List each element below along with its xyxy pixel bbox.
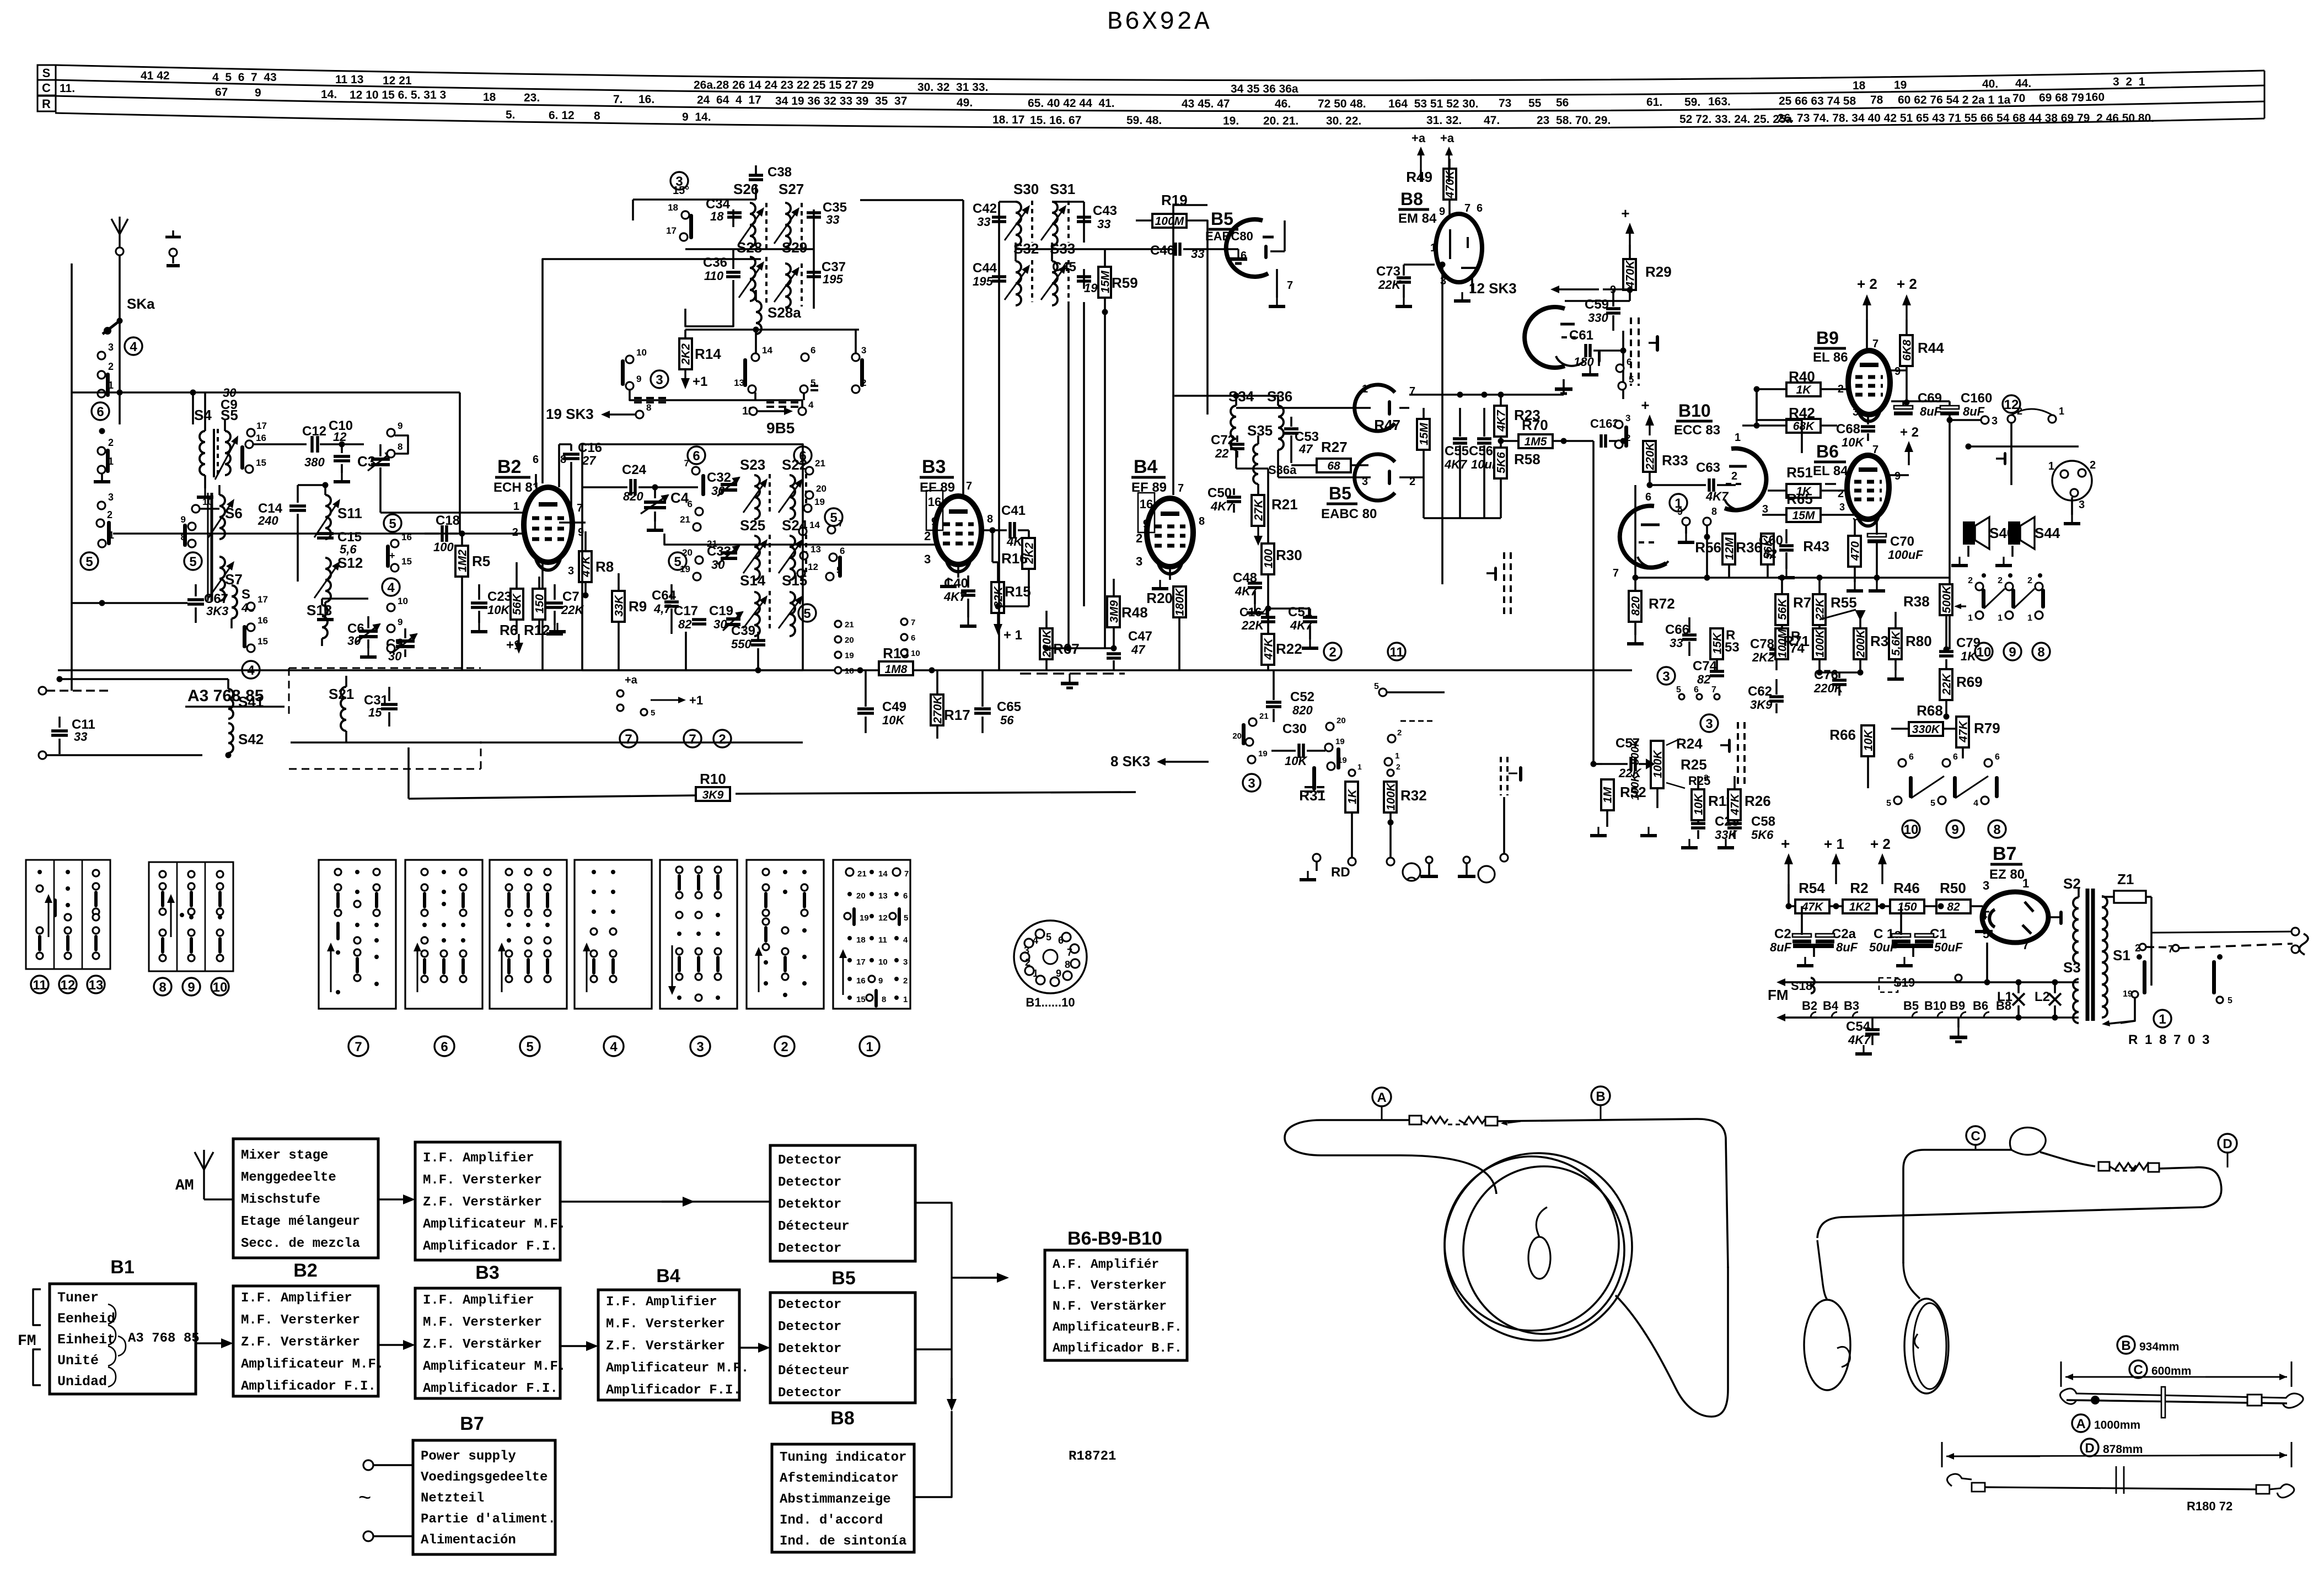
resistor R53 [1710,617,1740,672]
wire S28a to R14 [685,330,859,338]
wire r23 top [1500,379,1501,395]
svg-text:9: 9 [1439,206,1445,218]
svg-text:15: 15 [401,556,412,567]
svg-text:10: 10 [636,347,647,358]
svg-text:1: 1 [2159,1012,2166,1027]
label S28 [737,239,762,256]
svg-text:47K: 47K [1729,793,1742,815]
capacitor C30 [1271,722,1325,768]
svg-text:R180 72: R180 72 [2187,1499,2232,1513]
svg-text:10K: 10K [1842,435,1865,449]
contact 17a [666,225,688,241]
block B8 tuning [772,1444,914,1552]
tube B2 ECH81 [524,487,572,570]
capacitor C55 [1444,408,1469,518]
capacitor C33 [707,544,739,572]
label S22 [782,456,807,473]
svg-text:4: 4 [1981,908,1988,922]
svg-text:Detector: Detector [778,1153,841,1168]
capacitor C62 [1748,679,1784,713]
pin 6 B2 [533,454,539,466]
resistor R58 [1494,437,1541,518]
resistor R65 [1762,491,1845,522]
svg-text:10: 10 [911,649,920,658]
label S36a [1268,463,1297,477]
wire det top [1409,379,1572,408]
circled 4 node [125,337,142,355]
svg-text:100: 100 [433,540,454,554]
wire right bus down [1592,441,1595,764]
svg-text:3: 3 [861,345,866,356]
svg-text:16: 16 [256,433,266,443]
svg-text:5: 5 [189,555,196,569]
circled 3 under box [690,1036,710,1056]
capacitor C63 [1650,460,1737,503]
circled 11 12 13 [31,976,105,993]
svg-text:22K: 22K [561,603,584,617]
svg-text:Z.F. Verstärker: Z.F. Verstärker [423,1337,542,1352]
block B7 power [413,1440,556,1554]
contact above R31 [1349,762,1362,776]
svg-text:R24: R24 [1676,735,1703,752]
circled 3 and 15deg [670,172,689,197]
arrow FM3 [560,1341,598,1351]
svg-text:18: 18 [856,935,866,945]
wire 12sk3 right [1603,289,1630,301]
coil S28 var [739,257,766,303]
coil S23 [743,474,770,519]
table row S numbers [141,69,2145,95]
svg-text:8: 8 [1065,959,1070,970]
12SK3 arrow [1469,280,1616,297]
svg-text:21: 21 [680,514,690,525]
contact 1c [98,530,114,547]
svg-text:6: 6 [1995,752,2000,762]
svg-text:9: 9 [1677,506,1683,517]
svg-text:EL 84: EL 84 [1813,464,1848,478]
heater bus top [1784,937,2079,993]
label B5 blk [831,1268,855,1289]
component location table frame [37,65,2264,128]
label SKa [127,295,155,312]
svg-text:+a: +a [1440,131,1454,145]
svg-text:S29: S29 [782,239,807,256]
svg-text:5,6K: 5,6K [1890,630,1903,655]
svg-text:+ 2: + 2 [1897,276,1917,292]
svg-text:M.F. Versterker: M.F. Versterker [423,1173,542,1188]
svg-text:7: 7 [684,458,689,469]
svg-text:7: 7 [1613,567,1619,579]
svg-text:68K: 68K [1793,420,1815,433]
label S27 [779,181,804,197]
tuner dashed box [289,668,481,769]
svg-text:2: 2 [108,437,114,448]
wire c39 bottom [685,670,686,671]
svg-text:5K6: 5K6 [1751,828,1774,842]
pin1 B5 [1362,383,1368,395]
tube B5 diode1 [1355,385,1409,431]
svg-text:10K: 10K [1693,793,1705,815]
svg-text:6: 6 [441,1040,448,1054]
svg-text:8: 8 [646,402,651,413]
wire r50 tube [1983,906,1984,907]
wire B4 grid [1031,243,1147,545]
resistor R20 180K [1146,567,1186,670]
svg-text:Détecteur: Détecteur [778,1364,850,1379]
transformer S1 [2102,896,2130,1018]
ground below SKa contacts [94,474,110,482]
svg-text:Voedingsgedeelte: Voedingsgedeelte [421,1470,548,1485]
label B6-B9-B10 [1067,1228,1162,1249]
svg-text:R27: R27 [1321,439,1348,455]
svg-text:7: 7 [1287,279,1293,292]
label S24 [782,517,808,534]
svg-text:21: 21 [815,458,825,469]
svg-text:56: 56 [1000,713,1014,727]
wire osc top link [860,199,963,201]
svg-text:160: 160 [2085,91,2105,104]
svg-text:3: 3 [108,492,114,503]
svg-text:20: 20 [682,547,693,558]
resistor R33 [1643,441,1688,488]
svg-text:4: 4 [808,400,814,410]
wire b10 to r40 [1704,575,1710,581]
label B5 upper [1205,209,1253,243]
tube B6 EL84 [1838,444,1901,526]
svg-text:20: 20 [816,483,826,494]
main bus wire [58,669,1632,671]
svg-text:C41: C41 [1001,503,1026,518]
capacitor C66 [1665,617,1697,656]
svg-text:2: 2 [1136,531,1142,545]
svg-text:AM: AM [175,1177,194,1194]
svg-text:1K: 1K [1346,788,1359,804]
wire ind [1622,331,1624,399]
svg-text:Amplificador B.F.: Amplificador B.F. [1053,1341,1182,1355]
wire B9 plate [1866,320,1868,353]
contact 9b [181,514,196,530]
svg-text:S23: S23 [740,456,765,473]
svg-text:9: 9 [255,87,261,99]
svg-text:4: 4 [610,1040,618,1054]
contact 19b [680,564,701,580]
svg-text:19: 19 [1335,737,1345,746]
svg-text:3 2 1: 3 2 1 [2113,76,2145,88]
svg-text:Detector: Detector [778,1320,841,1334]
plus1 arrow b3 [992,530,1029,643]
svg-text:14: 14 [762,345,772,356]
block B3 if [415,1288,566,1398]
svg-text:B6: B6 [1973,999,1988,1013]
vertical to bus b [1083,302,1085,606]
svg-text:R2: R2 [1850,880,1868,896]
svg-text:R44: R44 [1918,340,1944,356]
label S36 [1267,388,1292,405]
circled 3 mid [651,370,668,388]
b8 tap [1950,975,1967,1042]
svg-text:47K: 47K [1801,901,1824,913]
svg-text:A: A [1377,1090,1386,1105]
svg-text:82: 82 [678,617,692,631]
svg-text:S: S [241,587,250,602]
svg-text:S31: S31 [1050,181,1075,197]
din ground [2064,497,2080,524]
pin 3 B2 [568,565,574,577]
svg-text:20: 20 [1232,731,1242,741]
svg-text:200K: 200K [1855,629,1867,658]
wire b6 plate [1867,441,1869,455]
svg-text:17: 17 [666,225,677,236]
wire x350 down [185,392,193,424]
wire r59 down [1105,312,1123,648]
svg-text:934mm: 934mm [2139,1341,2179,1353]
osc wires [685,209,814,326]
label B5 lower [1321,483,1377,521]
circled 10 9 8 lower [1902,820,2006,838]
svg-text:B2: B2 [293,1260,317,1281]
svg-text:8: 8 [398,637,402,647]
dim circled A [2072,1414,2140,1432]
wire plus a arrows [1411,131,1454,182]
svg-text:R66: R66 [1829,726,1856,743]
speaker S40 [1963,517,2015,549]
label S18 [1791,978,1815,993]
svg-text:C54: C54 [1846,1019,1871,1034]
contact 10a [626,347,647,363]
svg-text:B6: B6 [1816,442,1839,461]
coil S11 [314,484,362,539]
svg-text:7: 7 [2022,938,2029,952]
wire left col x130b [71,263,72,264]
wire c14 to b2 [298,482,329,503]
label S32 [1013,240,1039,257]
resistor R80 [1887,612,1932,679]
svg-text:820: 820 [623,489,643,503]
pin8 B4 [1199,515,1205,528]
svg-text:2: 2 [1397,728,1402,738]
label A3 768 85 [185,687,285,707]
svg-text:3K3: 3K3 [206,604,228,618]
svg-text:R49: R49 [1406,169,1432,185]
switch box 3 [660,860,737,1009]
svg-text:2: 2 [924,529,931,543]
resistor R2 [1833,880,1890,913]
circled 4 on bus [0,0,1,1]
svg-text:EZ 80: EZ 80 [1989,867,2025,882]
L2 lamp [2035,989,2061,1005]
capacitor C42 [973,201,1006,229]
pin7 B4 [1178,482,1184,494]
resistor R11 [1665,764,1733,820]
transformer S3 [2063,959,2081,1023]
svg-text:Alimentación: Alimentación [421,1533,516,1548]
svg-text:Amplificador F.I.: Amplificador F.I. [423,1239,558,1254]
svg-text:C30: C30 [1282,722,1307,736]
circled 5 node b [184,552,202,570]
capacitor C58 [1717,814,1775,848]
labels R6 R12 [500,622,550,638]
svg-text:9: 9 [1056,968,1061,979]
dashed pair mid [1486,552,1511,616]
svg-text:C7: C7 [562,589,579,604]
wire x834 down [459,392,461,534]
resistor R29 [1623,245,1672,301]
power terminals [358,1460,413,1541]
svg-text:Z.F. Verstärker: Z.F. Verstärker [241,1335,360,1350]
label B7 blk [460,1413,484,1434]
svg-text:Amplificador F.I.: Amplificador F.I. [423,1381,558,1396]
svg-text:3: 3 [656,373,663,388]
svg-text:47K: 47K [1957,720,1970,742]
contact 3 right [1950,415,1998,427]
svg-text:12: 12 [808,562,818,572]
svg-text:SKa: SKa [127,295,155,312]
wire sw lower top [1325,711,1326,722]
circled 4 node b [382,578,400,596]
svg-text:2: 2 [1998,576,2003,585]
dots row [1982,573,2042,578]
svg-text:S3: S3 [2063,959,2081,976]
tube B10 triode B [1613,491,1668,579]
svg-text:470: 470 [1849,541,1862,561]
svg-text:R51: R51 [1786,464,1813,481]
svg-text:12 10 15 6. 5. 31 3: 12 10 15 6. 5. 31 3 [350,89,446,101]
svg-text:Ind. de sintonía: Ind. de sintonía [780,1534,906,1549]
svg-text:C40: C40 [944,576,968,591]
svg-text:7: 7 [1178,482,1184,494]
svg-text:2K2: 2K2 [680,343,693,365]
svg-text:4: 4 [1973,799,1978,808]
svg-text:1M5: 1M5 [1525,435,1547,448]
resistor R27 [1291,439,1368,472]
svg-text:7: 7 [625,732,632,747]
svg-text:4K7: 4K7 [1495,410,1508,432]
capacitor C34 [706,197,742,223]
ground terminal top [165,230,181,266]
svg-text:R55: R55 [1831,594,1857,611]
label B8 [1398,189,1437,226]
label R18721 [1069,1449,1116,1464]
transformer S2 [2047,875,2081,964]
svg-text:12 SK3: 12 SK3 [1469,280,1517,297]
pin7 B5 [1409,385,1415,397]
svg-text:Detektor: Detektor [778,1342,841,1357]
svg-text:1: 1 [1735,432,1741,444]
resistor R51 [1768,464,1848,498]
wire s11 top [325,485,326,495]
label S13 [307,602,332,618]
svg-text:1: 1 [513,500,519,513]
svg-text:3K9: 3K9 [702,789,724,801]
svg-text:C: C [1971,1129,1980,1144]
resistor R68 [1891,702,1966,736]
antenna symbol [111,217,128,255]
svg-text:Eenheid: Eenheid [57,1311,115,1327]
coil S22 [779,474,806,519]
svg-text:13: 13 [878,891,888,901]
svg-text:15: 15 [257,636,268,647]
wire matrix right border [802,455,803,670]
svg-text:1: 1 [866,1040,873,1054]
svg-text:73: 73 [1499,97,1511,110]
long vertical S30 [1016,243,1052,261]
wire b9 pin9 out [1890,366,1907,370]
svg-text:C19: C19 [709,604,733,618]
svg-text:6: 6 [533,454,539,466]
coil S41 [228,689,264,719]
svg-text:R18721: R18721 [1069,1449,1116,1464]
svg-text:6: 6 [903,891,908,901]
svg-text:11: 11 [33,978,46,993]
svg-text:20: 20 [845,636,854,645]
svg-text:R12: R12 [524,622,550,638]
svg-text:15: 15 [256,458,266,468]
contact 16b [391,532,412,547]
svg-text:240: 240 [257,514,278,528]
contacts 2 1 right [2008,406,2064,423]
label C9 30 [221,386,238,412]
cable CD path [1817,1127,2221,1263]
label B4 [1131,456,1167,495]
svg-text:30. 32 31 33.: 30. 32 31 33. [917,81,988,94]
wire q contacts [620,697,621,704]
contacts 6 5 [800,345,815,393]
svg-text:B2: B2 [1802,999,1817,1013]
svg-text:5: 5 [389,516,396,531]
capacitor C41 [981,503,1030,548]
svg-text:Netzteil: Netzteil [421,1491,484,1506]
FM bracket [18,1289,41,1385]
svg-text:26a.28 26 14 24 23 22 25 15 27: 26a.28 26 14 24 23 22 25 15 27 29 [694,79,874,92]
svg-text:C49: C49 [882,699,906,714]
svg-text:B5: B5 [1329,483,1351,503]
capacitor C17 [674,604,706,631]
bar 16-15 [240,445,244,470]
label B9 [1813,328,1848,365]
svg-text:8: 8 [2037,645,2044,660]
svg-text:R29: R29 [1645,263,1672,280]
wire det bottom [1409,477,1501,518]
circled 5 node [80,552,98,570]
capacitor C56 [1469,408,1500,518]
connector det to b8 [915,1349,957,1497]
svg-text:10: 10 [1977,645,1992,660]
svg-text:A.F. Amplifiér: A.F. Amplifiér [1053,1257,1159,1272]
svg-text:8uF: 8uF [1770,940,1792,954]
svg-text:R16: R16 [1001,550,1028,567]
svg-text:FM: FM [18,1333,36,1350]
label S31 [1050,181,1075,197]
svg-text:7: 7 [838,518,843,529]
svg-text:17: 17 [257,594,268,605]
svg-text:S35: S35 [1247,422,1273,439]
svg-text:195: 195 [823,272,843,286]
jack 2 [1478,866,1495,882]
resistor R26 [1728,729,1786,820]
svg-text:C4: C4 [670,489,689,506]
svg-text:2: 2 [2027,576,2032,585]
wire 2944 down [1620,399,1627,444]
capacitor C46 [1105,243,1247,263]
svg-text:1: 1 [1033,968,1038,979]
svg-text:R68: R68 [1917,702,1943,719]
svg-text:16: 16 [257,615,268,626]
svg-text:3: 3 [2079,499,2085,511]
svg-text:R79: R79 [1974,720,2000,736]
wire left vertical main [71,263,73,691]
cap c1 bar [1892,946,1933,966]
contact 1 [98,380,114,397]
